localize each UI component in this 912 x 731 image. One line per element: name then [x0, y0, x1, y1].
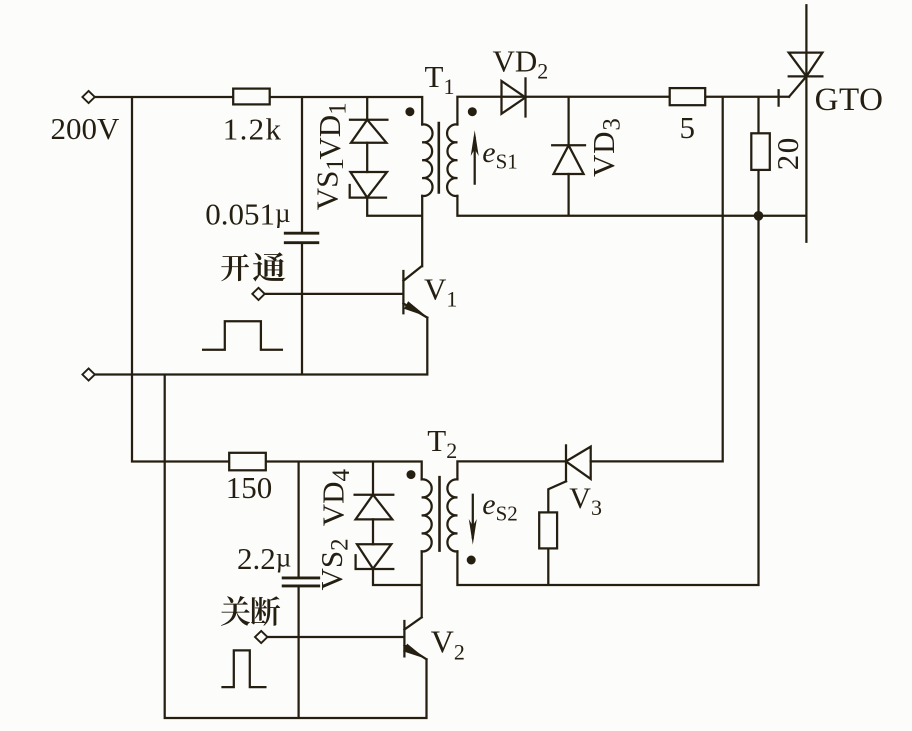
svg-text:2.2µ: 2.2µ [237, 541, 291, 576]
svg-text:GTO: GTO [815, 82, 884, 118]
svg-text:1.2k: 1.2k [223, 112, 282, 147]
svg-text:0.051µ: 0.051µ [205, 197, 290, 232]
svg-text:200V: 200V [51, 111, 121, 146]
svg-text:150: 150 [226, 470, 272, 505]
svg-text:5: 5 [680, 110, 696, 145]
svg-text:20: 20 [770, 136, 805, 170]
